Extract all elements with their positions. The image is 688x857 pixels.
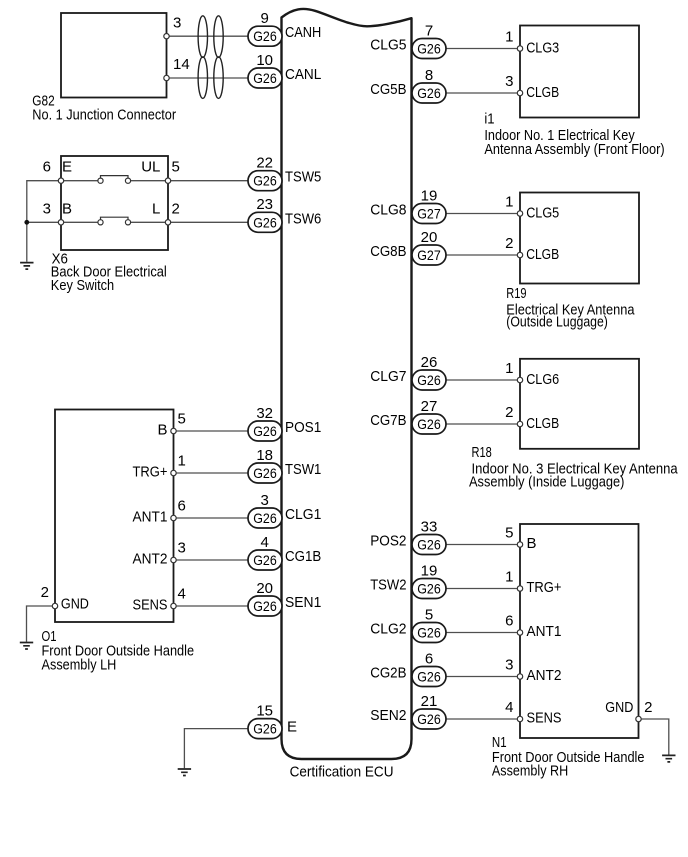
svg-text:POS1: POS1: [285, 419, 321, 436]
wire G26 SEN2 to N1 SENS: [446, 718, 520, 720]
connector G27 pin 20 (CG8B): [412, 229, 446, 265]
label R19 block: [506, 285, 635, 330]
svg-text:23: 23: [256, 196, 273, 213]
svg-text:3: 3: [178, 540, 186, 557]
label i1 block: [484, 111, 664, 158]
pin 1 (N1 TRG+): [517, 586, 522, 591]
svg-text:19: 19: [421, 187, 438, 204]
label G82 block: [32, 93, 176, 124]
svg-text:TRG+: TRG+: [527, 579, 562, 596]
svg-text:G26: G26: [253, 465, 277, 481]
node junction X6 ground: [24, 220, 29, 225]
svg-text:1: 1: [505, 193, 513, 210]
svg-text:G26: G26: [253, 552, 277, 568]
svg-text:2: 2: [644, 699, 652, 716]
svg-text:TRG+: TRG+: [133, 464, 168, 481]
svg-text:CLG8: CLG8: [370, 202, 406, 219]
svg-text:E: E: [287, 719, 297, 736]
wire X6 E to ground: [27, 181, 61, 262]
svg-text:3: 3: [505, 73, 513, 90]
svg-text:CLG2: CLG2: [370, 621, 406, 638]
svg-text:CLG3: CLG3: [526, 40, 559, 57]
svg-text:G27: G27: [417, 206, 441, 222]
connector G26 pin 33 (POS2): [412, 518, 446, 554]
svg-text:6: 6: [425, 650, 433, 667]
N1 Front Door Outside Handle RH box: [520, 524, 639, 738]
O1 Front Door Outside Handle LH box: [55, 410, 174, 623]
svg-text:G26: G26: [253, 214, 277, 230]
wire G26 CLG5 to i1 CLG3: [446, 48, 520, 50]
pin 5 (N1 B): [517, 542, 522, 547]
svg-text:2: 2: [41, 584, 49, 601]
wire X6 switch stub L row right: [130, 221, 168, 223]
wire G26 CG5B to i1 CLGB: [446, 92, 520, 94]
svg-text:G26: G26: [417, 537, 441, 553]
svg-text:5: 5: [505, 524, 513, 541]
svg-text:B: B: [527, 535, 537, 552]
svg-text:CANH: CANH: [285, 24, 321, 41]
X6 Back Door Electrical Key Switch box: [61, 156, 168, 250]
twisted pair marks (CAN bus): [198, 16, 223, 99]
ground X6: [20, 263, 33, 270]
svg-text:7: 7: [425, 22, 433, 39]
svg-text:3: 3: [43, 201, 51, 218]
svg-text:ANT1: ANT1: [527, 623, 562, 640]
svg-text:6: 6: [178, 498, 186, 515]
svg-text:Antenna Assembly (Front Floor): Antenna Assembly (Front Floor): [484, 141, 664, 158]
svg-text:22: 22: [256, 155, 273, 172]
wire G26 CLG2 to N1 ANT1: [446, 632, 520, 634]
svg-text:1: 1: [505, 360, 513, 377]
wire ECU E to ground: [184, 729, 248, 769]
svg-text:14: 14: [173, 56, 190, 73]
svg-text:No. 1 Junction Connector: No. 1 Junction Connector: [32, 107, 176, 124]
svg-text:4: 4: [261, 534, 269, 551]
wire G26 CG7B to R18 CLGB: [446, 423, 520, 425]
svg-text:5: 5: [425, 606, 433, 623]
svg-text:R19: R19: [506, 285, 526, 302]
pin 4 (O1 SENS): [171, 603, 176, 608]
pin 2 (O1 GND): [52, 603, 57, 608]
connector G26 pin 21 (SEN2): [412, 693, 446, 729]
svg-text:1: 1: [178, 453, 186, 470]
wire O1 TRG+ to G26 TSW1: [174, 472, 249, 474]
svg-text:CLGB: CLGB: [526, 246, 559, 263]
svg-text:CLGB: CLGB: [526, 84, 559, 101]
pin 5 (O1 B): [171, 428, 176, 433]
svg-text:CLG6: CLG6: [526, 371, 559, 388]
pin 1 (i1 CLG3): [517, 46, 522, 51]
svg-text:SENS: SENS: [133, 597, 168, 614]
R19 Electrical Key Antenna box: [520, 193, 639, 284]
connector G26 pin 4 (CG1B): [248, 534, 282, 570]
wire X6 L to G26 TSW6: [168, 221, 248, 223]
svg-text:2: 2: [505, 404, 513, 421]
svg-text:19: 19: [421, 562, 438, 579]
label O1 block: [42, 628, 195, 673]
pin 6 (X6 E): [58, 178, 63, 183]
svg-text:G26: G26: [253, 510, 277, 526]
pin 6 (O1 ANT1): [171, 515, 176, 520]
svg-text:CG2B: CG2B: [370, 665, 406, 682]
wire G82 pin14 to G26 CANL: [167, 77, 249, 79]
svg-text:G26: G26: [417, 711, 441, 727]
svg-text:B: B: [62, 201, 72, 218]
wire X6 switch stub UL row: [61, 180, 98, 182]
svg-text:CG7B: CG7B: [370, 412, 406, 429]
svg-text:TSW6: TSW6: [285, 210, 321, 227]
wire O1 B to G26 POS1: [174, 430, 249, 432]
connector G26 pin 6 (CG2B): [412, 650, 446, 686]
pin 2 (N1 GND): [636, 716, 641, 721]
svg-text:GND: GND: [61, 596, 89, 613]
svg-text:G26: G26: [417, 416, 441, 432]
ground N1: [662, 755, 675, 762]
connector G26 pin 26 (CLG7): [412, 354, 446, 390]
connector G26 pin 8 (CG5B): [412, 67, 446, 103]
svg-text:L: L: [152, 201, 160, 218]
svg-text:ANT2: ANT2: [527, 667, 562, 684]
pin 3 (G82): [164, 34, 169, 39]
wire G26 TSW2 to N1 TRG+: [446, 588, 520, 590]
connector G26 pin 10 (CANL): [248, 52, 282, 88]
svg-text:SEN2: SEN2: [370, 707, 406, 724]
pin 5 (X6 UL): [165, 178, 170, 183]
connector G26 pin 3 (CLG1): [248, 492, 282, 528]
pin 4 (N1 SENS): [517, 716, 522, 721]
switch contact X6 row y=180.7: [98, 176, 131, 184]
svg-text:SENS: SENS: [527, 710, 562, 727]
svg-text:SEN1: SEN1: [285, 594, 321, 611]
svg-text:CLG5: CLG5: [526, 205, 559, 222]
svg-text:G26: G26: [417, 625, 441, 641]
connector G26 pin 7 (CLG5): [412, 22, 446, 58]
svg-text:1: 1: [505, 28, 513, 45]
svg-text:33: 33: [421, 518, 438, 535]
wire G26 CLG7 to R18 CLG6: [446, 379, 520, 381]
connector G26 pin 9 (CANH): [248, 10, 282, 46]
pin 2 (R18 CLGB): [517, 421, 522, 426]
label R18 block: [469, 444, 678, 490]
connector G26 pin 27 (CG7B): [412, 398, 446, 434]
wire O1 GND to ground: [27, 606, 56, 642]
svg-text:CLG5: CLG5: [370, 37, 406, 54]
svg-text:6: 6: [43, 158, 51, 175]
wire O1 SENS to G26 SEN1: [174, 605, 249, 607]
ECU body (Certification ECU): [282, 9, 412, 759]
wire G26 POS2 to N1 B: [446, 544, 520, 546]
svg-text:G26: G26: [253, 173, 277, 189]
svg-text:3: 3: [505, 656, 513, 673]
svg-text:Key Switch: Key Switch: [51, 277, 114, 294]
svg-text:G26: G26: [253, 28, 277, 44]
connector G26 pin 23 (TSW6): [248, 196, 282, 232]
svg-text:G26: G26: [417, 85, 441, 101]
connector G26 pin 5 (CLG2): [412, 606, 446, 642]
svg-text:UL: UL: [141, 158, 160, 175]
svg-text:TSW1: TSW1: [285, 461, 321, 478]
svg-text:G26: G26: [417, 581, 441, 597]
pin 3 (N1 ANT2): [517, 674, 522, 679]
svg-text:POS2: POS2: [370, 533, 406, 550]
wire O1 ANT2 to G26 CG1B: [174, 559, 249, 561]
connector G26 pin 32 (POS1): [248, 405, 282, 441]
ground O1: [20, 643, 33, 650]
svg-text:5: 5: [172, 158, 180, 175]
svg-text:CLG1: CLG1: [285, 506, 321, 523]
connector G26 pin 15 (E): [248, 702, 282, 738]
svg-text:G26: G26: [253, 423, 277, 439]
pin 2 (R19 CLGB): [517, 252, 522, 257]
svg-text:G26: G26: [253, 721, 277, 737]
wire X6 switch stub UL row right: [130, 180, 168, 182]
svg-text:GND: GND: [605, 699, 633, 716]
svg-text:CG5B: CG5B: [370, 81, 406, 98]
connector G26 pin 22 (TSW5): [248, 155, 282, 191]
switch contact X6 row y=222.3: [98, 217, 131, 225]
svg-text:TSW2: TSW2: [370, 577, 406, 594]
svg-text:27: 27: [421, 398, 438, 415]
label N1 block: [492, 734, 645, 779]
svg-text:3: 3: [173, 14, 181, 31]
pin 6 (N1 ANT1): [517, 630, 522, 635]
wire X6 UL to G26 TSW5: [168, 180, 248, 182]
svg-text:CLGB: CLGB: [526, 415, 559, 432]
svg-text:8: 8: [425, 67, 433, 84]
svg-text:5: 5: [178, 411, 186, 428]
wire N1 GND to ground: [639, 719, 669, 755]
svg-text:10: 10: [256, 52, 273, 69]
wire G26 CG2B to N1 ANT2: [446, 676, 520, 678]
R18 Indoor No.3 Electrical Key Antenna box: [520, 359, 639, 449]
svg-text:G26: G26: [417, 372, 441, 388]
svg-text:TSW5: TSW5: [285, 169, 321, 186]
wire G82 pin3 to G26 CANH: [167, 35, 249, 37]
svg-text:i1: i1: [484, 111, 494, 128]
wire X6 switch stub L row: [61, 221, 98, 223]
svg-text:6: 6: [505, 612, 513, 629]
svg-text:18: 18: [256, 447, 273, 464]
svg-text:CG1B: CG1B: [285, 548, 321, 565]
svg-text:20: 20: [421, 229, 438, 246]
pin 1 (R18 CLG6): [517, 377, 522, 382]
svg-text:21: 21: [421, 693, 438, 710]
pin 2 (X6 L): [165, 220, 170, 225]
svg-text:G26: G26: [417, 41, 441, 57]
svg-text:9: 9: [261, 10, 269, 27]
connector G26 pin 20 (SEN1): [248, 580, 282, 616]
pin 1 (O1 TRG+): [171, 470, 176, 475]
wire X6 B to junction: [27, 221, 61, 223]
svg-text:CANL: CANL: [285, 66, 321, 83]
svg-text:Assembly RH: Assembly RH: [492, 763, 568, 780]
label X6 block: [51, 251, 167, 295]
svg-text:CG8B: CG8B: [370, 243, 406, 260]
ground ECU E: [178, 769, 191, 776]
svg-text:1: 1: [505, 568, 513, 585]
svg-text:(Outside Luggage): (Outside Luggage): [506, 313, 608, 330]
svg-text:G27: G27: [417, 247, 441, 263]
wire G27 CLG8 to R19 CLG5: [446, 213, 520, 215]
svg-text:G26: G26: [253, 598, 277, 614]
svg-text:Assembly (Inside Luggage): Assembly (Inside Luggage): [469, 473, 624, 490]
svg-text:4: 4: [178, 586, 186, 603]
pin 3 (O1 ANT2): [171, 557, 176, 562]
svg-text:ANT2: ANT2: [133, 551, 168, 568]
wire G27 CG8B to R19 CLGB: [446, 254, 520, 256]
pin 3 (i1 CLGB): [517, 90, 522, 95]
i1 Indoor No.1 Electrical Key Antenna box: [520, 26, 639, 118]
svg-text:R18: R18: [472, 444, 492, 461]
pin 3 (X6 B): [58, 220, 63, 225]
svg-text:G26: G26: [253, 70, 277, 86]
svg-text:2: 2: [172, 201, 180, 218]
svg-text:26: 26: [421, 354, 438, 371]
svg-text:Certification ECU: Certification ECU: [290, 763, 394, 780]
connector G26 pin 18 (TSW1): [248, 447, 282, 483]
svg-text:E: E: [62, 158, 72, 175]
connector G26 pin 19 (TSW2): [412, 562, 446, 598]
svg-text:32: 32: [256, 405, 273, 422]
svg-text:CLG7: CLG7: [370, 368, 406, 385]
G82 No.1 Junction Connector box: [61, 13, 167, 98]
svg-text:B: B: [157, 422, 167, 439]
svg-text:G26: G26: [417, 669, 441, 685]
svg-text:3: 3: [261, 492, 269, 509]
pin 14 (G82): [164, 75, 169, 80]
svg-text:20: 20: [256, 580, 273, 597]
pin 1 (R19 CLG5): [517, 211, 522, 216]
svg-text:15: 15: [256, 702, 273, 719]
svg-text:ANT1: ANT1: [133, 509, 168, 526]
svg-text:2: 2: [505, 235, 513, 252]
svg-text:Assembly LH: Assembly LH: [42, 656, 117, 673]
wire O1 ANT1 to G26 CLG1: [174, 517, 249, 519]
svg-text:4: 4: [505, 699, 513, 716]
connector G27 pin 19 (CLG8): [412, 187, 446, 223]
